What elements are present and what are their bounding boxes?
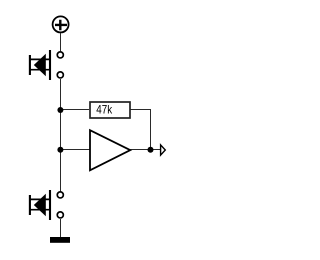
svg-text:47k: 47k [96, 103, 113, 117]
